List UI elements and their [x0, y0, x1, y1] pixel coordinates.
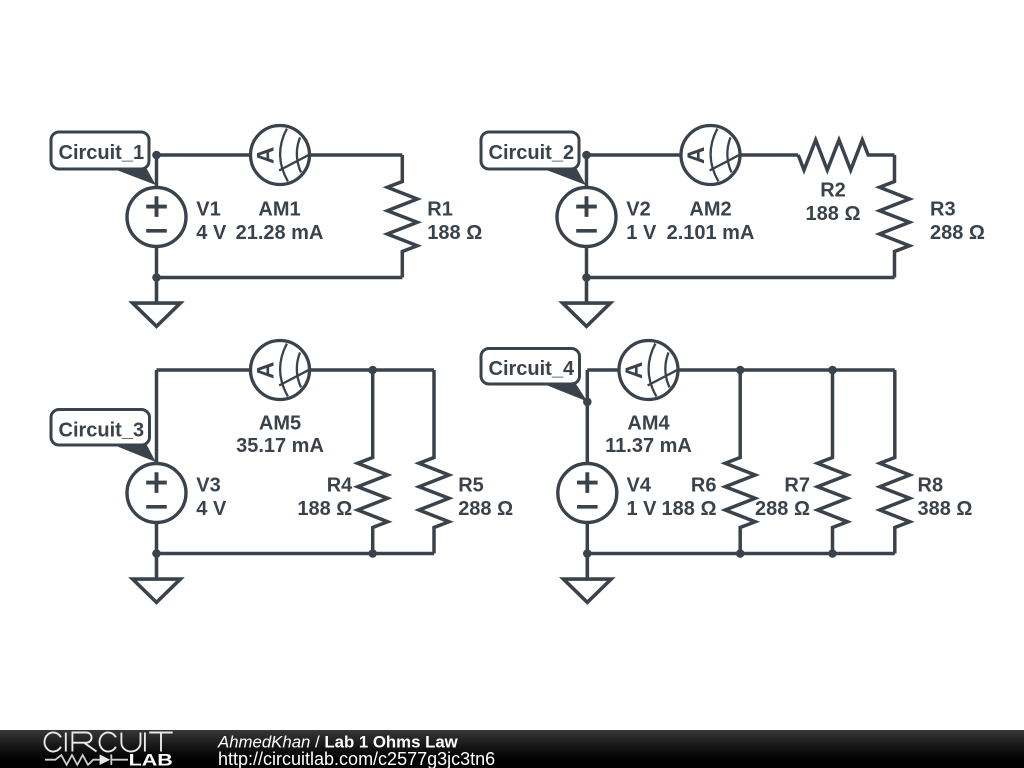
svg-text:R1: R1	[427, 198, 453, 220]
svg-text:http://circuitlab.com/c2577g3j: http://circuitlab.com/c2577g3jc3tn6	[218, 749, 495, 768]
logo diode triangle	[100, 754, 111, 765]
svg-text:Circuit_1: Circuit_1	[59, 142, 145, 164]
svg-text:288 Ω: 288 Ω	[930, 222, 985, 244]
svg-text:R7: R7	[784, 474, 810, 496]
callout Circuit_3	[51, 410, 156, 463]
resistor R8	[880, 370, 910, 554]
svg-text:AM5: AM5	[259, 413, 301, 435]
node dot circuit2 bottom	[582, 273, 591, 282]
svg-text:21.28 mA: 21.28 mA	[236, 222, 324, 244]
ground circuit2	[563, 278, 611, 327]
svg-text:2.101 mA: 2.101 mA	[667, 222, 755, 244]
svg-text:188 Ω: 188 Ω	[297, 498, 352, 520]
node dot circuit4 label	[583, 398, 592, 407]
svg-text:288 Ω: 288 Ω	[755, 498, 810, 520]
svg-text:188 Ω: 188 Ω	[662, 498, 717, 520]
node dot circuit1 top	[152, 151, 161, 160]
svg-text:188 Ω: 188 Ω	[806, 203, 861, 225]
svg-text:35.17 mA: 35.17 mA	[236, 435, 324, 457]
wire circuit2 bottom	[587, 276, 895, 280]
node dot circuit4 R7 bottom	[828, 549, 837, 558]
node dot circuit2 top	[582, 151, 591, 160]
wire circuit4 bottom	[587, 552, 895, 556]
svg-text:LAB: LAB	[129, 752, 174, 768]
ammeter AM4	[619, 341, 678, 400]
svg-text:AM1: AM1	[258, 198, 300, 220]
wire circuit3 bottom	[157, 552, 435, 556]
svg-text:AM2: AM2	[689, 198, 731, 220]
svg-text:R6: R6	[691, 474, 717, 496]
wire circuit2 top with R2	[587, 153, 799, 157]
svg-text:R5: R5	[458, 474, 484, 496]
svg-text:288 Ω: 288 Ω	[458, 498, 513, 520]
wire circuit4 top	[587, 368, 895, 372]
svg-text:V2: V2	[626, 198, 650, 220]
resistor R2	[798, 140, 894, 170]
footer bar	[0, 730, 1024, 768]
wire circuit1 bottom	[157, 276, 403, 280]
node dot circuit3 bottom left	[152, 549, 161, 558]
wire circuit2 left column	[585, 155, 589, 278]
voltage source V3	[127, 464, 186, 523]
node dot circuit3 R4 top	[368, 366, 377, 375]
ammeter AM5	[251, 341, 310, 400]
svg-text:1 V: 1 V	[626, 222, 657, 244]
callout Circuit_4	[481, 349, 587, 402]
resistor R6	[725, 370, 755, 554]
node dot circuit4 R6 top	[736, 366, 745, 375]
node dot circuit4 bottom left	[583, 549, 592, 558]
resistor R3	[880, 155, 910, 278]
node dot circuit3 R4 bottom	[368, 549, 377, 558]
resistor R4	[358, 370, 388, 554]
callout Circuit_2	[481, 132, 586, 185]
svg-text:AM4: AM4	[627, 413, 670, 435]
logo CIRCUIT wordmark	[44, 733, 172, 752]
svg-text:Circuit_4: Circuit_4	[489, 358, 575, 380]
callout Circuit_1	[51, 132, 156, 185]
resistor R7	[818, 370, 848, 554]
svg-text:R3: R3	[930, 198, 956, 220]
svg-text:11.37 mA: 11.37 mA	[605, 435, 692, 457]
ground circuit3	[133, 554, 181, 603]
voltage source V1	[127, 188, 186, 247]
wire circuit3 left column	[155, 370, 159, 554]
svg-text:R8: R8	[918, 474, 944, 496]
node dot circuit4 R7 top	[828, 366, 837, 375]
node dot circuit1 bottom	[152, 273, 161, 282]
svg-text:4 V: 4 V	[196, 222, 227, 244]
logo resistor-diode glyph	[45, 754, 128, 765]
svg-text:R4: R4	[327, 474, 353, 496]
ground circuit4	[563, 554, 611, 603]
ammeter AM1	[251, 126, 310, 185]
resistor R5	[419, 370, 449, 554]
svg-text:Circuit_2: Circuit_2	[489, 142, 575, 164]
svg-text:Circuit_3: Circuit_3	[59, 419, 145, 441]
ground circuit1	[133, 278, 181, 327]
wire circuit3 top	[157, 368, 435, 372]
svg-text:V4: V4	[627, 474, 652, 496]
svg-text:V3: V3	[196, 474, 220, 496]
voltage source V4	[558, 464, 617, 523]
wire circuit4 left column	[586, 370, 590, 554]
svg-text:388 Ω: 388 Ω	[918, 498, 973, 520]
svg-text:R2: R2	[820, 180, 846, 202]
svg-text:V1: V1	[196, 198, 220, 220]
node dot circuit4 R6 bottom	[736, 549, 745, 558]
wire circuit1 top	[157, 153, 403, 157]
svg-text:1 V: 1 V	[627, 498, 658, 520]
ammeter AM2	[681, 126, 740, 185]
svg-text:188 Ω: 188 Ω	[427, 222, 482, 244]
wire circuit1 left column	[155, 155, 159, 278]
svg-text:4 V: 4 V	[196, 498, 227, 520]
voltage source V2	[557, 188, 616, 247]
resistor R1	[387, 155, 417, 278]
